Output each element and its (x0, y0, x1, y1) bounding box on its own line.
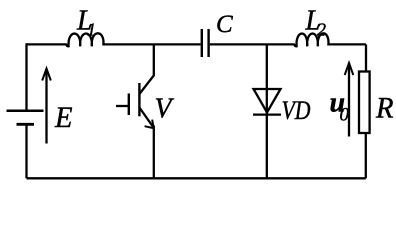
svg-text:0: 0 (340, 105, 350, 126)
svg-text:VD: VD (282, 96, 311, 125)
svg-text:2: 2 (317, 19, 326, 39)
svg-text:C: C (216, 11, 233, 38)
svg-text:E: E (54, 101, 72, 134)
svg-text:1: 1 (87, 20, 96, 40)
svg-text:R: R (375, 92, 393, 125)
